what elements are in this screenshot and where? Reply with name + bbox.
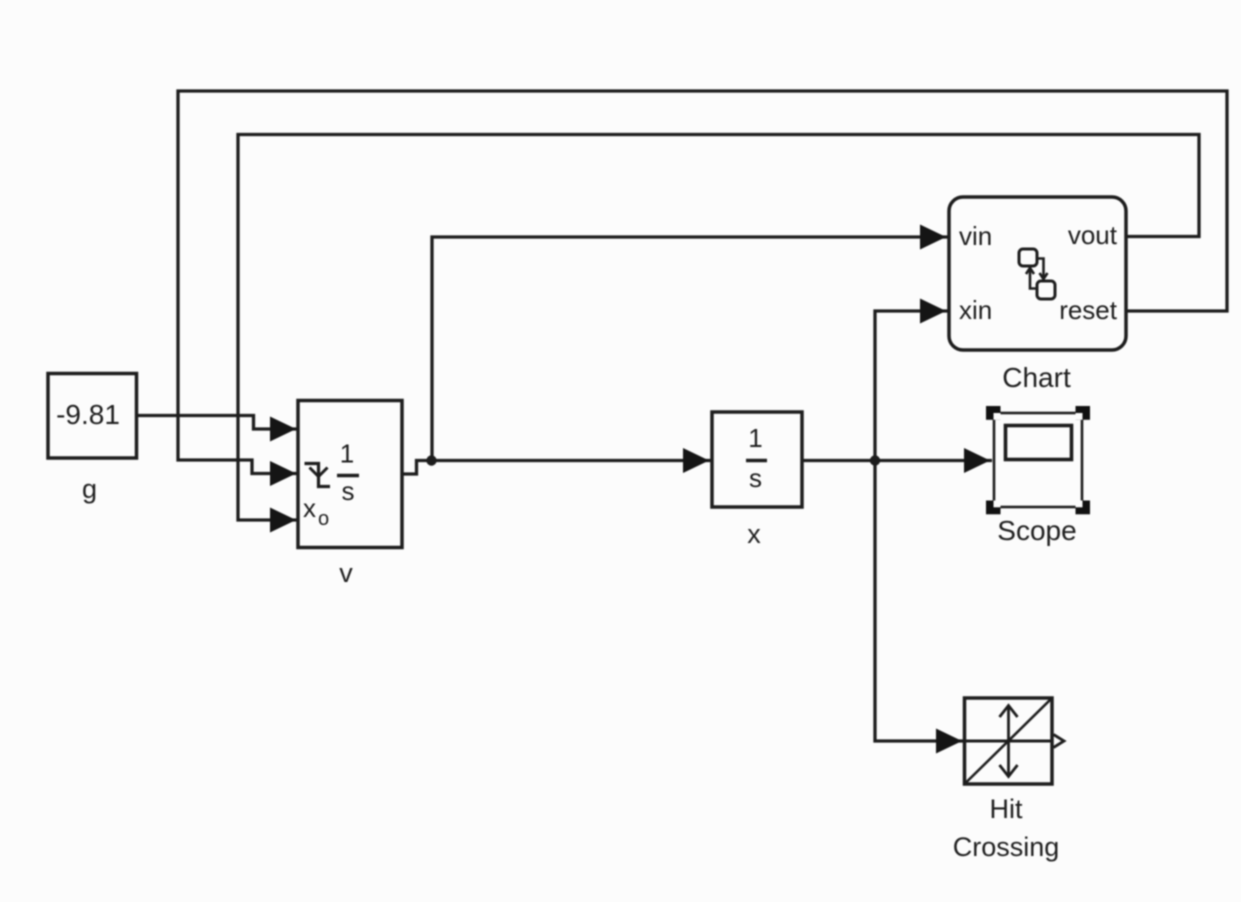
node A junction dot on v output [426,455,436,465]
wire reset feedback: Chart reset output to integrator v external-reset input [178,91,1227,474]
svg-text:x: x [303,493,316,523]
node B junction dot on x output [870,455,880,465]
svg-text:vout: vout [1068,220,1118,250]
svg-text:Scope: Scope [997,515,1076,546]
wire v output to integrator x input [402,461,711,475]
constant block g [48,374,137,459]
Scope selection handle bottom-left [986,501,1001,515]
Hit Crossing rising diagonal [966,700,1051,783]
v fraction bar [337,474,359,478]
arrowhead into Chart vin [920,225,946,250]
wire branch node B down to Hit Crossing input [875,461,963,742]
arrowhead into v reset input [270,461,296,486]
svg-text:o: o [318,508,329,530]
arrowhead into Hit Crossing input [936,729,962,754]
Scope selection handle bottom-right [1076,501,1091,515]
svg-text:g: g [82,474,97,504]
Scope selection handle top-left [986,406,1001,420]
svg-text:Hit: Hit [990,794,1023,824]
wire branch node B up to Chart xin input [875,311,948,461]
svg-text:Chart: Chart [1002,362,1071,393]
Stateflow Chart block [949,197,1126,350]
Hit Crossing unconnected output port open arrow [1054,735,1065,748]
x fraction bar [746,459,767,463]
arrowhead into Scope input [964,448,990,473]
wire branch node A up to Chart vin input [432,237,948,461]
integrator block v [298,401,402,548]
Chart stateflow icon lower state [1037,281,1055,299]
wire g output: constant g to integrator v input 1 [136,416,297,430]
arrowhead into v x0 input [270,508,296,533]
Scope selection handle top-right [1076,406,1091,420]
Chart stateflow icon upper state [1019,249,1037,266]
svg-text:vin: vin [959,221,992,251]
v reset trigger arrowhead [310,468,328,477]
Scope screen icon [1006,426,1072,460]
wire vout feedback: Chart vout output to integrator v initial-condition x0 input [238,135,1199,521]
Chart stateflow icon transition down [1038,259,1048,280]
arrowhead into x input [683,448,709,473]
Chart stateflow icon transition up [1026,268,1036,289]
Hit Crossing block [965,698,1053,784]
svg-text:s: s [749,463,762,493]
Scope block [994,413,1082,507]
svg-text:s: s [342,476,355,506]
integrator block x [712,412,802,507]
Hit Crossing axis line [965,740,1053,743]
svg-text:1: 1 [340,439,354,469]
v reset trigger icon (falling edge) [305,464,331,487]
arrowhead into v input 1 [270,417,296,442]
svg-text:xin: xin [959,295,992,325]
svg-text:-9.81: -9.81 [56,399,120,430]
svg-text:reset: reset [1059,295,1118,325]
svg-text:x: x [747,519,761,549]
svg-text:1: 1 [748,423,762,453]
arrowhead into Chart xin [920,299,946,324]
wire x output to Scope input [802,459,992,462]
svg-text:Crossing: Crossing [953,832,1060,862]
svg-text:v: v [339,558,353,588]
Hit Crossing vertical double arrow [1000,706,1018,777]
